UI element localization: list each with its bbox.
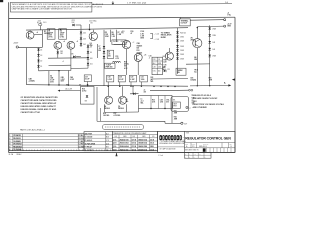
svg-text:2N08: 2N08: [180, 41, 184, 43]
wire upper terminal pair: [150, 89, 193, 91]
logo copyright lines: [158, 140, 186, 151]
svg-text:2N08: 2N08: [180, 58, 184, 60]
parts list table: [9, 134, 85, 151]
transistor Q7: [193, 27, 202, 64]
svg-text:CHAPTER AND THE ULTIMATE CUSTO: CHAPTER AND THE ULTIMATE CUSTOMARY GENER…: [12, 8, 73, 11]
thermal cutout box: [180, 17, 191, 26]
label 12.6VAC: [89, 19, 98, 30]
svg-text:REV: REV: [229, 143, 232, 145]
svg-text:SIZE: SIZE: [185, 143, 188, 145]
svg-text:B 2: B 2: [106, 137, 109, 139]
svg-text:GRN: GRN: [158, 63, 161, 65]
general notes box: [10, 2, 103, 12]
capacitor C18 label box: [107, 75, 114, 87]
svg-text:CAPACITORS SIGNAL INDICATED AP: CAPACITORS SIGNAL INDICATED AP: [21, 102, 57, 105]
svg-text:C63: C63: [83, 38, 86, 40]
svg-text:J1 OUTPUT: J1 OUTPUT: [85, 150, 93, 152]
output connector rounded box: [171, 97, 191, 112]
svg-text:← C.01: ← C.01: [153, 34, 159, 36]
wire joining Q8 Q9 emitters: [105, 104, 139, 112]
svg-text:3: 3: [9, 141, 10, 143]
svg-text:CR5: CR5: [60, 51, 63, 53]
pointer arrow below chart: [115, 153, 117, 156]
svg-text:CR3: CR3: [72, 20, 75, 22]
wire Q7 vertical lower: [197, 64, 198, 86]
svg-text:F 6: F 6: [106, 150, 108, 152]
transistor Q6: [134, 53, 146, 75]
wire bottom long horizontal: [97, 121, 187, 125]
manufacturer logo: [159, 135, 185, 141]
svg-text:1 JY SNR 2121 (2(2): 1 JY SNR 2121 (2(2): [127, 2, 147, 4]
diode CR3 with label: [72, 20, 82, 30]
wire vertical left rail: [26, 48, 28, 85]
svg-text:SEL: SEL: [173, 99, 176, 101]
svg-text:2N08: 2N08: [150, 146, 154, 148]
svg-text:Z 4: Z 4: [199, 154, 201, 156]
svg-text:OF RESISTORS UNLESS CAPACITORS: OF RESISTORS UNLESS CAPACITORS: [21, 96, 59, 99]
svg-text:2N30: 2N30: [180, 36, 184, 38]
appendage box below border: [184, 152, 211, 158]
svg-text:C4S: C4S: [153, 67, 156, 69]
transistor Q3: [67, 41, 78, 71]
wires to right edge with terminals: [190, 13, 232, 28]
svg-text:INDI: INDI: [193, 101, 197, 103]
diode chain CR30-CR34: [208, 25, 216, 70]
transistor diode conversion chart: [112, 131, 157, 151]
relay box K1: [81, 84, 95, 104]
svg-text:D11: D11: [90, 64, 93, 66]
transistor Q6b: [163, 48, 174, 60]
svg-text:615 B: 615 B: [150, 149, 154, 151]
svg-text:C62: C62: [83, 44, 86, 46]
svg-text:+2: +2: [133, 42, 135, 44]
svg-text:OUTPUT: OUTPUT: [174, 104, 177, 108]
capacitor C17 label box: [84, 75, 91, 86]
resistor R6 column: [111, 30, 116, 42]
svg-text:UNLESS SIGNAL OHMS AND OF AND: UNLESS SIGNAL OHMS AND OF AND: [21, 108, 57, 111]
svg-text:2N2: 2N2: [60, 53, 63, 55]
contact C.01 C.02: [150, 33, 159, 41]
svg-text:OSL: OSL: [153, 70, 156, 72]
wire main top rail: [26, 28, 188, 30]
svg-text:UNLESS PLUS IN A: UNLESS PLUS IN A: [193, 94, 212, 97]
svg-text:BLK: BLK: [153, 63, 156, 65]
notes block left: [21, 96, 59, 114]
svg-text:D43: D43: [212, 42, 215, 44]
svg-text:+2B: +2B: [144, 54, 147, 56]
resistor R7 column: [117, 30, 122, 42]
svg-text:ARE ARE OHMS PLUS MF: ARE ARE OHMS PLUS MF: [193, 97, 219, 100]
svg-text:4: 4: [9, 143, 10, 146]
wire pair vertical C15: [58, 70, 64, 86]
diode chain CR20-CR26: [176, 28, 186, 74]
svg-text:CR6: CR6: [71, 53, 74, 55]
wire left vertical bottom: [97, 87, 101, 121]
svg-text:Q2 B: Q2 B: [113, 143, 116, 145]
svg-text:1.8: 1.8: [158, 59, 160, 61]
svg-text:+300V: +300V: [13, 43, 19, 45]
svg-text:B+: B+: [224, 82, 226, 84]
revision reference line: [92, 1, 232, 4]
svg-text:UNLESS INDICATED OHMS CAPACIT: UNLESS INDICATED OHMS CAPACIT: [21, 105, 57, 108]
svg-text:D3: D3: [40, 55, 42, 57]
svg-text:1: 1: [9, 135, 10, 137]
svg-text:RN 1N210: RN 1N210: [13, 138, 21, 140]
svg-text:CAPACITORS ARE CAPACITORS RES: CAPACITORS ARE CAPACITORS RES: [21, 99, 58, 102]
output filter box: [139, 96, 173, 110]
capacitor C2 label box: [59, 29, 67, 40]
svg-text:← C.02: ← C.02: [153, 39, 159, 41]
transistor Q4: [89, 30, 97, 41]
diode CR6 horizontal: [71, 53, 82, 58]
notes block right: [193, 94, 225, 109]
transistor Q5: [114, 40, 135, 75]
resistor R25 R26 vertical: [172, 108, 178, 124]
arrow marker on right border: [232, 78, 235, 80]
svg-text:TH: TH: [183, 139, 185, 141]
wire diode chain vertical lower: [209, 70, 210, 86]
capacitor C19 label box: [118, 75, 125, 87]
svg-text:D45: D45: [212, 49, 215, 51]
svg-text:2N30: 2N30: [212, 35, 216, 37]
svg-text:CA 2N408: CA 2N408: [13, 140, 20, 143]
svg-text:ARE OTHERWI: ARE OTHERWI: [193, 106, 208, 109]
svg-text:1N2: 1N2: [72, 22, 75, 24]
svg-text:CR3 B: CR3 B: [132, 146, 136, 148]
svg-text:S1 115/230: S1 115/230: [85, 137, 93, 139]
resistor grid box R19: [152, 57, 163, 74]
corner registration mark: [0, 0, 3, 2]
wire mid horizontal 1: [48, 57, 88, 59]
bus junction dots right: [153, 86, 175, 88]
wire +300V feed: [18, 46, 42, 48]
svg-text:D-6: D-6: [225, 2, 228, 4]
svg-text:2N08: 2N08: [212, 56, 216, 58]
switch position table: [84, 132, 112, 152]
svg-text:RESISTORS VOLTAGES VOLTAG: RESISTORS VOLTAGES VOLTAG: [193, 103, 225, 106]
wire mid horizontal 4: [39, 69, 71, 71]
svg-text:E 5: E 5: [106, 147, 108, 149]
label +225V with fuse F1: [37, 21, 47, 31]
svg-text:T1 PWR XFMR: T1 PWR XFMR: [85, 143, 96, 145]
svg-text:2N08: 2N08: [212, 28, 216, 30]
transistor Q8: [105, 86, 113, 104]
svg-text:P. lwb: P. lwb: [159, 155, 164, 157]
svg-text:+5: +5: [62, 61, 64, 63]
svg-text:1200: 1200: [158, 67, 161, 69]
capacitor C1 label box: [47, 29, 55, 40]
drawing frame border: [9, 2, 235, 152]
diode chain CR7-CR9: [80, 30, 86, 47]
svg-text:D1: D1: [40, 66, 42, 68]
svg-text:D10: D10: [90, 58, 93, 60]
wire pair vertical C16: [68, 71, 74, 86]
svg-text:615 B: 615 B: [150, 139, 154, 141]
wire to right arrow B+: [190, 82, 231, 86]
svg-text:2: 2: [9, 138, 10, 140]
wire mid horizontal 2: [49, 64, 71, 66]
svg-text:1N4148: 1N4148: [113, 41, 119, 43]
svg-text:D9: D9: [90, 52, 92, 54]
svg-text:TITLE: TITLE: [186, 133, 190, 135]
svg-text:DWG NO: DWG NO: [203, 143, 208, 145]
svg-text:2N08: 2N08: [180, 50, 184, 52]
wire bottom Q7 area: [186, 56, 210, 73]
zone strip: [184, 148, 235, 153]
svg-text:5: 5: [9, 146, 10, 148]
parts list bottom ruler ticks: [9, 150, 158, 152]
svg-text:FSCM: FSCM: [192, 143, 196, 145]
diode chain D8-D11: [87, 44, 93, 68]
title block outline: [158, 131, 235, 152]
transistor Q1: [26, 30, 42, 47]
label stack C9B 1N4148: [137, 43, 143, 54]
svg-text:D2: D2: [40, 61, 42, 63]
transformer T1 label box: [105, 63, 115, 68]
svg-text:CR 2A125: CR 2A125: [13, 134, 21, 137]
capacitor C7: [98, 44, 106, 58]
capacitor C21 label box: [140, 75, 148, 87]
wire pair vertical C14: [48, 71, 54, 86]
label 1N4148 box: [112, 40, 126, 45]
diode CR5: [57, 51, 64, 55]
svg-text:SW1 PWR: SW1 PWR: [85, 133, 93, 135]
diode chain D1-D4: [37, 48, 42, 71]
svg-text:2N08: 2N08: [180, 46, 184, 48]
svg-text:PARTS LIST A-EL-RRA-C-2: PARTS LIST A-EL-RRA-C-2: [20, 129, 46, 132]
svg-text:600: 600: [158, 70, 161, 72]
diode CR27: [164, 69, 170, 72]
svg-text:CR1 B: CR1 B: [132, 139, 136, 141]
diode CR40 horizontal: [130, 85, 139, 95]
svg-text:R20 615: R20 615: [180, 32, 186, 34]
svg-text:C11: C11: [167, 69, 170, 71]
label AC 1.2W with wire: [58, 84, 81, 91]
svg-text:R19: R19: [153, 59, 156, 61]
resistor R5 column: [104, 30, 109, 86]
svg-text:RN 2N3904: RN 2N3904: [13, 145, 21, 148]
dashed callout pill: [102, 125, 143, 130]
svg-text:+B: +B: [76, 41, 78, 43]
transistor Q2: [54, 40, 66, 58]
svg-text:REGULATOR CONTROL GEN: REGULATOR CONTROL GEN: [185, 137, 231, 141]
title block field row: [184, 143, 235, 148]
capacitor C20 label box: [129, 75, 136, 87]
svg-text:C 3: C 3: [106, 140, 109, 142]
inductor L1 coil: [113, 61, 121, 62]
svg-text:R1 BL: R1 BL: [79, 135, 84, 137]
wire main bottom bus: [27, 85, 189, 87]
svg-text:OUT: OUT: [184, 124, 187, 126]
svg-text:DN 1N4002: DN 1N4002: [13, 143, 21, 146]
transistor Q9: [119, 86, 127, 104]
svg-text:2N08: 2N08: [180, 54, 184, 56]
thermistor box: [176, 68, 186, 75]
label +300V terminal: [13, 43, 19, 49]
svg-text:Y 2: Y 2: [194, 154, 196, 156]
svg-text:C64: C64: [83, 33, 86, 35]
capacitor C8 box: [107, 50, 113, 58]
wire aux horizontal right: [152, 78, 188, 80]
svg-text:CAPACITORS VTVM: CAPACITORS VTVM: [21, 111, 40, 114]
svg-text:D4: D4: [40, 49, 42, 51]
wire mid horizontal 3: [71, 67, 88, 69]
